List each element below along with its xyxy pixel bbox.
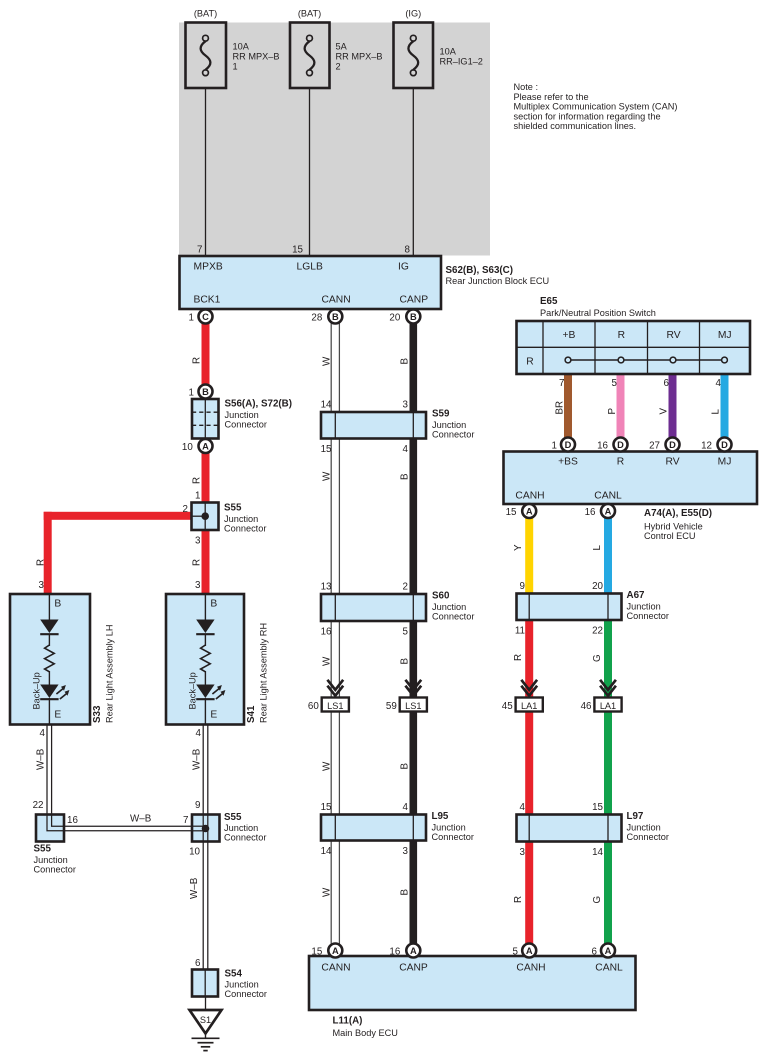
wire Y CANH HV ECU to A67 [525, 506, 533, 594]
switch contacts line [568, 359, 725, 361]
svg-text:Rear Light Assembly RH: Rear Light Assembly RH [258, 623, 268, 723]
svg-text:CANN: CANN [321, 963, 350, 974]
connector pin 6(A) CANL L11 [601, 944, 615, 958]
svg-text:W–B: W–B [36, 748, 47, 770]
svg-text:10A: 10A [440, 46, 457, 56]
rear light assembly LH S33 (back-up lamp) [10, 594, 90, 725]
svg-text:1: 1 [552, 441, 557, 452]
svg-text:Junction: Junction [225, 410, 259, 420]
connector pin 16(A) CANL [601, 504, 615, 518]
svg-text:Junction: Junction [224, 823, 258, 833]
svg-text:C: C [202, 312, 209, 322]
svg-text:B: B [410, 312, 417, 322]
svg-text:Note :: Note : [514, 82, 539, 92]
svg-text:Connector: Connector [432, 430, 474, 440]
junction connector S59 [321, 412, 426, 439]
svg-text:B: B [54, 599, 61, 610]
fuse RR-IG1-2 (IG) 10A [394, 23, 434, 89]
svg-text:W: W [321, 471, 332, 481]
svg-text:16: 16 [585, 507, 596, 518]
svg-text:13: 13 [321, 582, 332, 593]
wire W-B S41 pin 4 to S55 pin 9 [203, 725, 204, 815]
connector pin 1(C) BCK1 [199, 310, 213, 324]
svg-text:MPXB: MPXB [194, 262, 223, 273]
svg-text:RV: RV [666, 330, 680, 341]
svg-text:Rear Junction Block ECU: Rear Junction Block ECU [446, 276, 550, 286]
svg-text:W–B: W–B [189, 877, 200, 899]
svg-text:Connector: Connector [432, 832, 474, 842]
svg-text:S62(B), S63(C): S62(B), S63(C) [446, 265, 514, 276]
junction connector S56(A),S72(B) [192, 399, 219, 439]
svg-text:A: A [605, 506, 612, 516]
svg-text:11: 11 [515, 626, 525, 637]
svg-text:Junction: Junction [627, 822, 661, 832]
svg-text:S33: S33 [92, 705, 103, 723]
svg-text:LGLB: LGLB [297, 262, 323, 273]
svg-text:RR–IG1–2: RR–IG1–2 [440, 56, 483, 66]
svg-text:Junction: Junction [224, 514, 258, 524]
svg-text:S55: S55 [224, 503, 242, 514]
svg-text:Connector: Connector [225, 989, 267, 999]
svg-text:E: E [210, 710, 217, 721]
wire S54 to ground [205, 997, 207, 1011]
svg-text:A: A [526, 506, 533, 516]
svg-text:1: 1 [233, 61, 238, 71]
svg-text:(BAT): (BAT) [194, 9, 217, 19]
svg-text:A: A [605, 946, 612, 956]
svg-text:S55: S55 [224, 812, 242, 823]
svg-text:S1: S1 [200, 1015, 211, 1025]
svg-text:9: 9 [195, 800, 200, 811]
connector pin 15(A) CANH [522, 504, 536, 518]
svg-text:E: E [54, 710, 61, 721]
svg-text:IG: IG [398, 262, 409, 273]
svg-text:LA1: LA1 [521, 701, 537, 711]
svg-text:Hybrid Vehicle: Hybrid Vehicle [644, 522, 703, 532]
svg-text:15: 15 [311, 947, 322, 958]
svg-text:R: R [192, 357, 203, 364]
svg-text:Junction: Junction [34, 855, 68, 865]
svg-text:Connector: Connector [627, 832, 669, 842]
svg-text:22: 22 [592, 626, 603, 637]
ECU L11(A) Main Body ECU [309, 956, 636, 1010]
svg-text:Multiplex Communication System: Multiplex Communication System (CAN) [514, 102, 678, 112]
svg-text:D: D [669, 440, 676, 450]
wire W-B S33 pin 4 to S55 pin 22 [46, 725, 47, 815]
svg-text:Junction: Junction [432, 602, 466, 612]
svg-text:15: 15 [292, 245, 303, 256]
connector pin 1(D) +BS [561, 438, 575, 452]
svg-text:Junction: Junction [627, 601, 661, 611]
wire R S55 to S41 pin 3 [202, 530, 210, 594]
svg-text:Connector: Connector [34, 865, 76, 875]
svg-text:Back–Up: Back–Up [32, 672, 42, 709]
svg-text:16: 16 [67, 815, 78, 826]
svg-text:S56(A), S72(B): S56(A), S72(B) [225, 399, 293, 410]
svg-text:Connector: Connector [432, 612, 474, 622]
svg-text:Please refer to the: Please refer to the [514, 92, 589, 102]
svg-text:LS1: LS1 [405, 701, 421, 711]
wire fuse RR MPX-B 2 to pin 15 LGLB [309, 70, 310, 256]
fuse RR MPX-B 1 (BAT) 10A [186, 23, 227, 89]
connector pin 20(B) CANP [406, 310, 420, 324]
svg-text:14: 14 [321, 846, 332, 857]
svg-text:E65: E65 [540, 296, 558, 307]
svg-text:3: 3 [39, 580, 45, 591]
svg-text:3: 3 [195, 580, 201, 591]
svg-text:16: 16 [389, 947, 400, 958]
junction connector L97 [517, 815, 622, 842]
svg-text:S59: S59 [432, 409, 450, 420]
svg-text:W: W [321, 887, 332, 897]
svg-text:60: 60 [308, 701, 319, 712]
svg-text:20: 20 [389, 313, 400, 324]
junction connector S60 [321, 594, 426, 621]
ECU A74(A),E55(D) Hybrid Vehicle Control ECU [504, 452, 758, 505]
svg-text:CANP: CANP [400, 295, 429, 306]
svg-text:7: 7 [197, 245, 202, 256]
svg-text:L: L [592, 545, 603, 551]
svg-text:Connector: Connector [225, 420, 267, 430]
junction connector A67 [517, 594, 622, 621]
svg-text:1: 1 [195, 491, 200, 502]
junction connector S55 (lower right) [192, 815, 220, 842]
svg-text:9: 9 [520, 581, 525, 592]
svg-text:B: B [400, 658, 411, 665]
svg-text:S41: S41 [246, 705, 257, 723]
svg-text:RR MPX–B: RR MPX–B [336, 52, 383, 62]
svg-text:6: 6 [592, 947, 598, 958]
svg-text:LS1: LS1 [327, 701, 343, 711]
svg-text:2: 2 [336, 61, 341, 71]
svg-text:4: 4 [403, 444, 409, 455]
svg-text:Junction: Junction [225, 980, 259, 990]
rear light assembly RH S41 (back-up lamp) [166, 594, 244, 725]
svg-text:10: 10 [189, 847, 200, 858]
ECU S62(B),S63(C) Rear Junction Block ECU [180, 256, 442, 309]
wire L CANL HV ECU to A67 [604, 506, 612, 594]
connector pin 27(D) RV [666, 438, 680, 452]
svg-text:4: 4 [403, 802, 409, 813]
wire W-B S55 pin 16 to S55 pin 7 (horizontal) [64, 825, 206, 827]
svg-text:5: 5 [513, 947, 519, 958]
svg-text:A: A [332, 946, 339, 956]
svg-text:1: 1 [189, 313, 194, 324]
svg-text:D: D [617, 440, 624, 450]
svg-text:R: R [513, 654, 524, 661]
svg-text:+B: +B [563, 330, 576, 341]
svg-text:CANL: CANL [595, 963, 623, 974]
svg-text:L95: L95 [432, 811, 449, 822]
svg-text:R: R [36, 559, 47, 566]
svg-text:B: B [400, 358, 411, 365]
svg-text:R: R [192, 477, 203, 484]
svg-text:45: 45 [502, 701, 513, 712]
svg-text:2: 2 [403, 582, 408, 593]
connector arrow to LA1 (45) [521, 680, 537, 690]
svg-text:59: 59 [386, 701, 397, 712]
svg-text:R: R [513, 896, 524, 903]
svg-text:G: G [592, 654, 603, 662]
svg-text:22: 22 [33, 800, 44, 811]
wire R CANH L97 to Main Body ECU pin 5 [525, 842, 533, 951]
wire W-B S55 pin 10 to S54 pin 6 [202, 842, 204, 970]
svg-text:5: 5 [403, 627, 409, 638]
connector pin 5(A) CANH L11 [522, 944, 536, 958]
svg-text:CANP: CANP [399, 963, 428, 974]
svg-text:4: 4 [520, 802, 526, 813]
svg-text:27: 27 [649, 441, 660, 452]
svg-text:12: 12 [701, 441, 712, 452]
wire W CANN ECU to Main Body ECU (shielded double line) [331, 316, 332, 951]
svg-text:15: 15 [506, 507, 517, 518]
svg-text:10: 10 [182, 442, 193, 453]
connector arrow to LS1 (59) [405, 680, 421, 690]
wire V E65 pin 6 to HV ECU pin 27 [669, 374, 677, 445]
svg-text:2: 2 [183, 504, 188, 515]
svg-text:L11(A): L11(A) [333, 1016, 363, 1027]
svg-text:S54: S54 [225, 969, 243, 980]
svg-text:6: 6 [664, 378, 670, 389]
svg-text:B: B [332, 312, 339, 322]
svg-text:W–B: W–B [130, 814, 152, 825]
svg-text:B: B [202, 387, 209, 397]
svg-text:Connector: Connector [224, 833, 266, 843]
svg-text:section for information regard: section for information regarding the [514, 111, 661, 121]
power distribution shaded area [179, 23, 490, 256]
svg-text:CANH: CANH [515, 491, 544, 502]
svg-text:Junction: Junction [432, 822, 466, 832]
svg-text:1: 1 [189, 388, 194, 399]
junction connector S55 (lower left) [36, 815, 64, 842]
svg-text:LA1: LA1 [600, 701, 616, 711]
svg-text:+BS: +BS [558, 457, 578, 468]
svg-text:A74(A), E55(D): A74(A), E55(D) [644, 508, 712, 519]
svg-text:MJ: MJ [718, 457, 732, 468]
svg-text:5A: 5A [336, 42, 348, 52]
wire BR E65 pin 7 to HV ECU pin 1 [564, 374, 572, 445]
svg-text:4: 4 [196, 728, 202, 739]
svg-text:7: 7 [559, 378, 564, 389]
svg-text:B: B [210, 599, 217, 610]
wire fuse RR MPX-B 1 to pin 7 MPXB [205, 70, 206, 256]
svg-text:15: 15 [321, 444, 332, 455]
connector arrow to LS1 (60) [327, 680, 343, 690]
svg-text:A: A [202, 441, 209, 451]
svg-text:46: 46 [581, 701, 592, 712]
connector pin 1(B) S56 [199, 385, 213, 399]
svg-text:Control ECU: Control ECU [644, 531, 696, 541]
svg-text:3: 3 [520, 847, 526, 858]
connector pin 10(A) S56 [199, 439, 213, 453]
svg-text:7: 7 [183, 815, 188, 826]
svg-text:Junction: Junction [432, 420, 466, 430]
svg-text:15: 15 [321, 802, 332, 813]
svg-text:R: R [526, 357, 533, 368]
svg-text:A: A [526, 946, 533, 956]
connector pin 16(D) R [614, 438, 628, 452]
svg-text:W: W [321, 656, 332, 666]
junction connector L95 [321, 815, 426, 841]
wire P E65 pin 5 to HV ECU pin 16 [617, 374, 625, 445]
wire B CANP ECU to S59 [410, 316, 418, 412]
junction connector S54 [192, 970, 218, 997]
svg-text:Y: Y [513, 544, 524, 551]
svg-text:3: 3 [403, 846, 409, 857]
svg-text:RR MPX–B: RR MPX–B [233, 52, 280, 62]
svg-text:BCK1: BCK1 [194, 295, 221, 306]
svg-text:28: 28 [311, 313, 322, 324]
svg-text:20: 20 [592, 581, 603, 592]
svg-text:L97: L97 [627, 811, 644, 822]
connector pin 16(A) CANP L11 [406, 944, 420, 958]
wire B CANP S59 to S60 [410, 439, 418, 595]
fuse RR MPX-B 2 (BAT) 5A [290, 23, 330, 89]
wire R BCK1 to S56 to S55 [202, 316, 210, 503]
svg-text:4: 4 [40, 728, 46, 739]
svg-text:3: 3 [195, 536, 201, 547]
wire G CANL L97 to Main Body ECU pin 6 [604, 842, 612, 951]
svg-text:P: P [607, 408, 618, 415]
svg-text:14: 14 [592, 847, 603, 858]
svg-text:(IG): (IG) [405, 9, 421, 19]
wire R S55 branch to S33 (horizontal) [44, 512, 192, 520]
svg-text:MJ: MJ [718, 330, 732, 341]
svg-text:R: R [618, 330, 625, 341]
svg-text:Park/Neutral Position Switch: Park/Neutral Position Switch [540, 308, 656, 318]
svg-text:W: W [321, 761, 332, 771]
svg-text:6: 6 [195, 958, 201, 969]
svg-text:RV: RV [665, 457, 679, 468]
wire R S55 branch down to S33 pin 3 [44, 512, 52, 594]
svg-text:Back–Up: Back–Up [188, 672, 198, 709]
connector pin 28(B) CANN [328, 310, 342, 324]
svg-text:14: 14 [321, 400, 332, 411]
connector pin 15(A) CANN L11 [328, 944, 342, 958]
svg-text:15: 15 [592, 802, 603, 813]
svg-text:Connector: Connector [627, 611, 669, 621]
svg-text:CANL: CANL [594, 491, 622, 502]
wire B CANP S60 to L95 [410, 621, 418, 815]
connector pin 12(D) MJ [718, 438, 732, 452]
svg-text:S60: S60 [432, 591, 450, 602]
svg-text:(BAT): (BAT) [298, 9, 321, 19]
svg-text:10A: 10A [233, 42, 250, 52]
svg-text:CANN: CANN [322, 295, 351, 306]
ground S1 [190, 1010, 222, 1034]
svg-text:A: A [410, 946, 417, 956]
svg-text:B: B [400, 889, 411, 896]
svg-text:S55: S55 [34, 844, 52, 855]
svg-text:W: W [321, 356, 332, 366]
svg-text:Main Body ECU: Main Body ECU [333, 1028, 398, 1038]
svg-text:5: 5 [612, 378, 618, 389]
junction connector S55 (upper) [192, 503, 219, 531]
connector arrow to LA1 (46) [600, 680, 616, 690]
wire L E65 pin 4 to HV ECU pin 12 [721, 374, 729, 445]
svg-text:4: 4 [716, 378, 722, 389]
svg-text:D: D [721, 440, 728, 450]
svg-text:3: 3 [403, 400, 409, 411]
wire G CANL A67 to L97 [604, 620, 612, 815]
svg-text:D: D [565, 440, 572, 450]
svg-text:R: R [617, 457, 624, 468]
svg-text:W–B: W–B [192, 748, 203, 770]
svg-text:Rear Light Assembly LH: Rear Light Assembly LH [104, 624, 114, 723]
svg-text:L: L [711, 409, 722, 415]
svg-text:16: 16 [321, 627, 332, 638]
svg-text:BR: BR [555, 401, 566, 415]
svg-text:B: B [400, 763, 411, 770]
svg-text:shielded communication lines.: shielded communication lines. [514, 121, 637, 131]
svg-text:B: B [400, 473, 411, 480]
svg-text:Connector: Connector [224, 524, 266, 534]
wire B CANP L95 to Main Body ECU pin 16 [410, 841, 418, 951]
svg-text:A67: A67 [627, 590, 646, 601]
svg-text:16: 16 [597, 441, 608, 452]
wire fuse RR-IG1-2 to pin 8 IG [413, 70, 414, 256]
svg-text:8: 8 [405, 245, 411, 256]
svg-text:R: R [192, 559, 203, 566]
svg-text:G: G [592, 896, 603, 904]
wire R CANH A67 to L97 [525, 620, 533, 815]
svg-text:CANH: CANH [516, 963, 545, 974]
svg-text:V: V [659, 408, 670, 415]
